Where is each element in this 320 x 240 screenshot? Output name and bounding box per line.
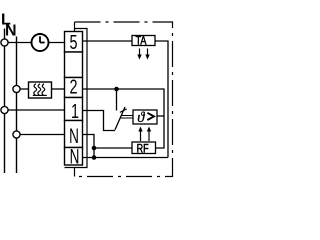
wire L to clock to terminal 5 [8, 42, 64, 44]
wire heater to terminal 2 [52, 88, 65, 90]
svg-text:RF: RF [137, 142, 149, 156]
wire N rail [16, 37, 18, 174]
wire RF left to N bus [94, 147, 132, 149]
svg-text:1: 1 [71, 100, 79, 123]
wire terminal 5 to TA [83, 40, 133, 42]
terminal box 5 [65, 32, 83, 53]
wire L rail [4, 29, 6, 174]
thermostat arrows up [140, 131, 142, 142]
terminal block outer housing edge [65, 29, 88, 168]
terminal box N1 [65, 121, 83, 148]
switch contact tick [120, 109, 127, 113]
junction dot N bus N2 [92, 155, 97, 160]
clock symbol [32, 34, 49, 51]
wire TA output down to N2 line [155, 41, 168, 158]
svg-text:2: 2 [69, 75, 77, 98]
svg-text:N: N [5, 23, 17, 40]
wire switch top feed from terminal 2 junction [116, 89, 118, 111]
terminal box blank [65, 52, 83, 78]
junction dot on terminal 2 wire [114, 87, 119, 92]
TA arrows down [139, 49, 141, 56]
svg-text:5: 5 [69, 30, 77, 53]
terminal box 2 [65, 78, 83, 98]
terminal connection circle on L (terminal 1 feed) [1, 106, 8, 113]
wire N to terminal N1 [20, 134, 64, 136]
TA box [132, 36, 155, 46]
switch contact [115, 107, 125, 130]
enclosure riser bottom [74, 168, 76, 177]
junction dot N bus RF [92, 146, 97, 151]
terminal box N2 [65, 148, 83, 166]
RF box [132, 142, 156, 154]
wire terminal 2 right and down to RF [83, 89, 165, 148]
wire N2 line to TA return [83, 157, 169, 159]
wire L to terminal 1 [8, 109, 64, 111]
wire N1 bus down to N2 line [83, 135, 95, 158]
heater element box [29, 82, 52, 98]
svg-text:ϑ: ϑ [137, 110, 145, 126]
enclosure riser top [74, 22, 76, 32]
terminal connection circle on N (heater) [13, 85, 20, 92]
svg-text:N: N [70, 144, 80, 168]
wire N heater branch [20, 88, 28, 90]
mechanical linkage [120, 116, 133, 119]
terminal box 1 [65, 98, 83, 121]
terminal connection circle on N (terminal N) [13, 131, 20, 138]
terminal connection circle on L (clock feed) [1, 39, 8, 46]
wire terminal 1 to switch [83, 111, 116, 131]
thermostat box [133, 110, 157, 124]
svg-text:TA: TA [136, 34, 148, 48]
wire thermostat output stub [157, 115, 164, 117]
enclosure boundary dash-dot [75, 22, 173, 177]
